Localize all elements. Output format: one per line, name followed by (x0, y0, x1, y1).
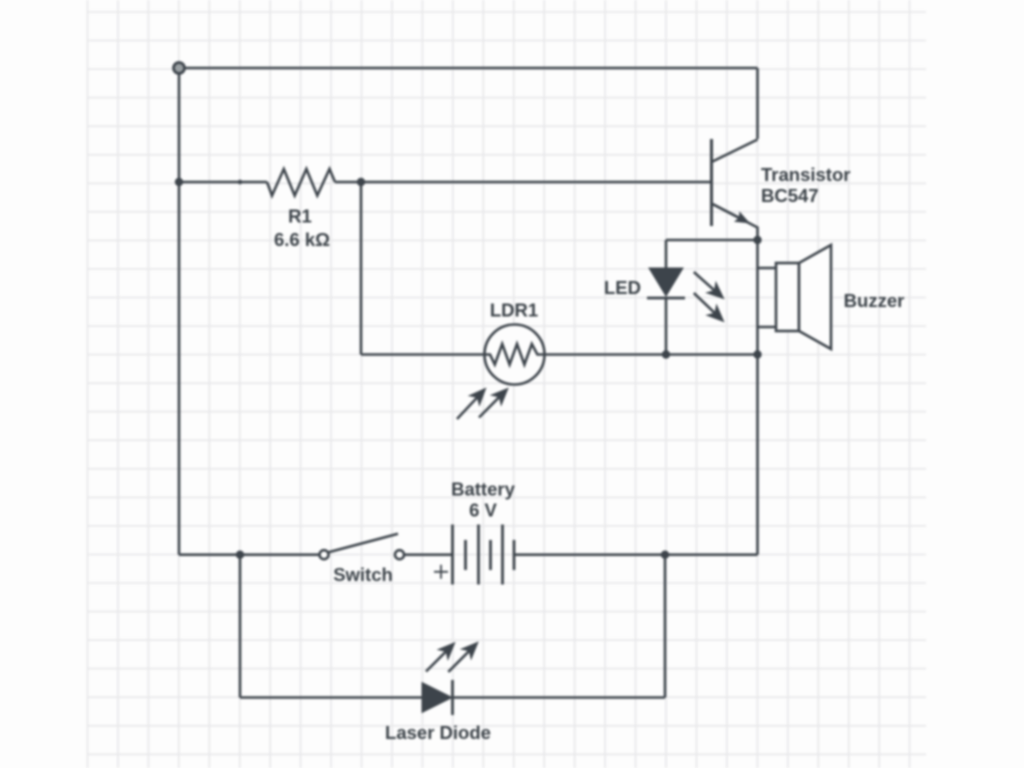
LED triangle (649, 268, 683, 296)
buzzer connection stubs (758, 268, 777, 327)
wire: LED anode from junction (666, 239, 758, 242)
battery B1 long plates (453, 525, 503, 585)
LDR1 zigzag (485, 344, 545, 365)
svg-text:Laser Diode: Laser Diode (385, 722, 491, 743)
resistor R1 zigzag (267, 169, 335, 196)
node: emitter junction (753, 236, 761, 244)
svg-text:Buzzer: Buzzer (844, 290, 905, 311)
svg-text:6.6 kΩ: 6.6 kΩ (274, 229, 330, 250)
svg-text:LDR1: LDR1 (490, 300, 538, 321)
wire: laser branch right vertical (664, 555, 667, 698)
svg-text:BC547: BC547 (761, 185, 819, 206)
node: laser branch right junction (661, 551, 669, 559)
svg-text:Battery: Battery (451, 479, 515, 500)
wire: collector drop from top rail (756, 68, 759, 139)
svg-text:Switch: Switch (333, 564, 393, 585)
switch SW1 lever (329, 534, 399, 552)
LED light arrow 1 (694, 272, 725, 299)
node: base wire waypoint tick (238, 180, 243, 185)
LED anode stem (665, 240, 668, 268)
laser diode cathode bar (451, 680, 454, 715)
switch SW1 right contact (395, 550, 404, 559)
battery plus sign (434, 565, 448, 579)
wire: battery row left segment (179, 553, 320, 556)
node: supply corner terminal (174, 63, 185, 74)
wire: switch to battery (404, 553, 452, 556)
wire: base wire right segment to transistor (335, 181, 711, 184)
LDR1 body circle (485, 325, 545, 385)
transistor U1 BC547 base bar (710, 139, 713, 226)
svg-text:Transistor: Transistor (761, 164, 850, 185)
LED cathode stem (665, 298, 668, 355)
node: LDR-buzzer junction (753, 350, 761, 358)
transistor emitter arrowhead (712, 204, 751, 224)
transistor emitter lead (712, 204, 758, 241)
node: laser branch left junction (236, 551, 244, 559)
buzzer horn (799, 245, 831, 349)
LDR1 light arrow 2 (479, 388, 509, 418)
wire: laser row left segment (240, 696, 422, 699)
wire: laser row right segment (453, 696, 666, 699)
laser light arrow 2 (448, 641, 479, 672)
transistor collector lead (712, 140, 758, 163)
LDR1 light arrow 1 (457, 388, 487, 420)
svg-text:R1: R1 (288, 206, 312, 227)
LED cathode bar (647, 297, 685, 300)
wire: laser branch left vertical (239, 555, 242, 698)
wire: battery to right rail (514, 553, 758, 556)
switch SW1 left contact (320, 550, 329, 559)
LED light arrow 2 (694, 293, 725, 322)
wire: base wire left segment (179, 181, 267, 184)
node: LED cathode junction (662, 350, 670, 358)
laser light arrow 1 (426, 642, 456, 672)
wire: left vertical rail (178, 68, 181, 555)
wire: top rail (179, 67, 758, 70)
battery B1 short plates (466, 540, 515, 570)
svg-text:LED: LED (604, 277, 641, 298)
laser diode D1 triangle (422, 683, 452, 713)
svg-text:6 V: 6 V (469, 500, 497, 521)
buzzer body rect (776, 263, 799, 331)
wire: LDR row horizontal (361, 353, 758, 356)
wire: R1 junction down to LDR row (360, 182, 363, 355)
wire: right vertical rail emitter to battery row (756, 240, 759, 555)
node: R1 output junction (357, 178, 365, 186)
node: base rail left junction (175, 178, 183, 186)
